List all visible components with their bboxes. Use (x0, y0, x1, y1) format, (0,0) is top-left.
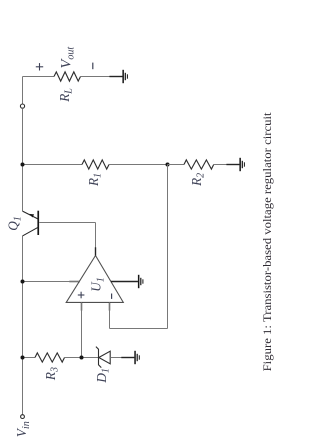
node junction rail-R1 (21, 163, 25, 167)
wire R2 row left (168, 164, 185, 166)
wire D1 to ground (110, 357, 134, 359)
node junction rail-power (21, 280, 25, 284)
node junction R3-D1-plus (80, 356, 84, 360)
wire op-amp output pin lead (95, 247, 97, 255)
resistor R1 (82, 160, 109, 169)
wire output row left (23, 76, 55, 78)
wire R2 ground lead (226, 164, 239, 166)
wire op-amp left power (23, 281, 80, 283)
op-amp U1 (66, 256, 123, 303)
wire R1 row right (109, 164, 168, 166)
resistor R3 (35, 353, 65, 362)
node Vin terminal circle (21, 415, 25, 419)
wire R2 row right (214, 164, 240, 166)
wire left rail lower (22, 236, 24, 415)
wire base to op-amp output (39, 222, 95, 224)
node junction rail-bottom (21, 356, 25, 360)
label plus output (36, 63, 43, 70)
wire output row right (81, 76, 123, 78)
wire D1 ground lead (121, 357, 134, 359)
ground D1 (134, 351, 140, 364)
resistor R2 (184, 160, 214, 169)
wire feedback R1R2 junction to minus input (167, 165, 169, 329)
wire op-amp right power (111, 281, 138, 283)
resistor RL (54, 72, 81, 81)
ground op-amp (138, 275, 144, 288)
label minus input (111, 294, 113, 299)
wire R3 to D1 junction (65, 357, 99, 359)
wire left rail top (22, 77, 24, 105)
wire op-amp left power pin lead (69, 281, 80, 283)
label minus output (92, 63, 94, 70)
node output terminal circle (20, 104, 24, 108)
wire op-amp minus pin lead (109, 302, 111, 310)
wire op-amp power pin lead (111, 281, 138, 283)
ground output (122, 70, 128, 83)
node junction R1-R2-feedback (166, 163, 170, 167)
wire left rail upper-mid (22, 108, 24, 211)
wire op-amp plus pin lead (81, 302, 83, 310)
diode D1 zener (96, 347, 110, 368)
label plus input (78, 292, 85, 299)
svg-text:Figure 1: Transistor-based vol: Figure 1: Transistor-based voltage regul… (262, 111, 274, 371)
wire plus input stub (81, 302, 83, 357)
wire output ground lead (109, 76, 122, 78)
transistor Q1 (23, 211, 40, 236)
ground R2 (239, 158, 245, 171)
wire R1 row left (23, 164, 83, 166)
wire bottom row left (23, 357, 36, 359)
